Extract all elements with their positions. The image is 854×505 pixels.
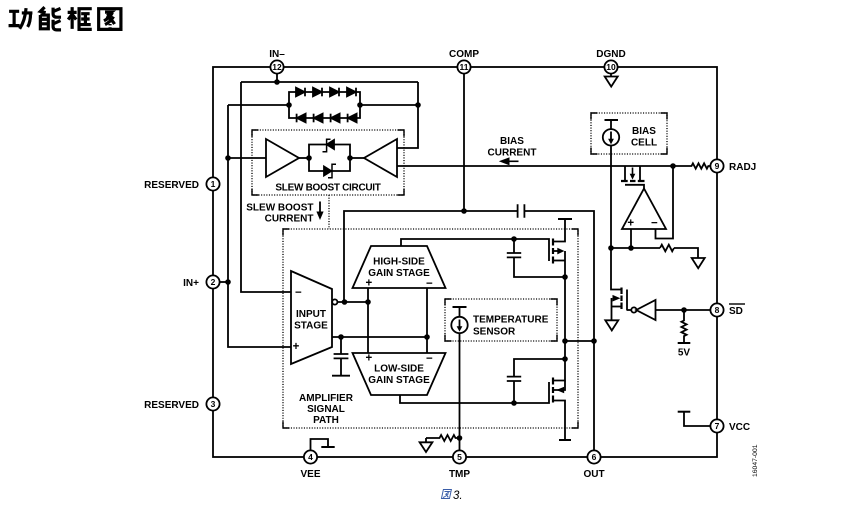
wire: vee bracket at pin4 [311, 439, 329, 451]
wire: box to right amp tip [350, 157, 364, 159]
title 功能框图 [9, 7, 121, 30]
radj op-amp [622, 189, 666, 230]
capacitor below input stage [332, 337, 350, 376]
svg-text:SD: SD [729, 306, 743, 317]
dotted link slew box to signal path box [328, 195, 330, 229]
RADJ series resistor [689, 163, 711, 168]
diode chain top branch wire [289, 92, 360, 105]
ground right of bias resistor [692, 258, 705, 268]
radj pass mosfet [621, 166, 645, 189]
svg-text:12: 12 [272, 62, 282, 72]
ground below shutdown mosfet [605, 320, 618, 330]
svg-text:16047-001: 16047-001 [752, 444, 759, 477]
slew boost mosfet pair box [309, 145, 350, 172]
pin 8 SD [710, 303, 723, 316]
diodes D1-D4 top (pointing right) [296, 88, 356, 97]
wire: diode mid rail right [360, 104, 418, 106]
pin 7 VCC [710, 419, 723, 432]
svg-text:11: 11 [460, 62, 469, 72]
slew boost current label arrow [319, 202, 321, 213]
svg-text:5: 5 [457, 452, 462, 462]
wire: bias current line (right amp out to RADJ node) [397, 165, 689, 167]
svg-text:INPUT: INPUT [296, 309, 326, 320]
wire: IN- vertical to input stage minus [241, 82, 291, 292]
input stage output bubble [332, 299, 337, 304]
svg-text:1: 1 [211, 179, 216, 189]
shutdown mosfet [612, 288, 632, 321]
LS output mosfet [553, 359, 571, 440]
svg-text:CURRENT: CURRENT [265, 214, 314, 225]
input stage trapezoid [291, 271, 332, 364]
IC boundary box [213, 67, 717, 457]
amp input signs [293, 218, 658, 366]
wire: SD pin to inverter [656, 309, 711, 311]
wire: slew amp input [228, 157, 266, 159]
ground at TMP resistor [420, 442, 433, 452]
bias current arrow [508, 160, 519, 162]
slew boost left amp [266, 139, 299, 177]
svg-text:SENSOR: SENSOR [473, 327, 516, 338]
wire: bottom output rail [332, 336, 429, 338]
svg-text:TMP: TMP [449, 469, 470, 480]
pin 1 RESERVED [206, 177, 219, 190]
wire: left amp out to box [299, 157, 309, 159]
HS output mosfet [553, 219, 572, 277]
svg-text:5V: 5V [678, 348, 691, 359]
bias reference resistor [660, 245, 674, 252]
wire: LS gain output to mosfet gate [400, 382, 549, 403]
svg-text:RADJ: RADJ [729, 162, 756, 173]
wire: COMP pin drop [463, 74, 465, 212]
slew device top (diode w/ gate bar) [323, 139, 335, 152]
wire: diode mid rail left [228, 104, 289, 106]
svg-text:VCC: VCC [729, 422, 750, 433]
wire: IN- right drop to slew amp input [397, 82, 418, 148]
pin 12 IN- [270, 60, 283, 82]
wire: out node across [565, 340, 594, 342]
svg-text:AMPLIFIER: AMPLIFIER [299, 393, 354, 404]
pin 2 IN+ [206, 275, 219, 288]
svg-text:−: − [651, 218, 658, 230]
svg-text:7: 7 [715, 421, 720, 431]
wire: op-amp plus lead [630, 229, 632, 248]
high-side gain stage trapezoid [353, 246, 446, 288]
svg-text:+: + [627, 218, 634, 230]
wire: IN+ vertical to input stage plus [228, 105, 291, 347]
svg-text:HIGH-SIDE: HIGH-SIDE [373, 257, 425, 268]
LS gate capacitor [507, 359, 565, 403]
temp sensor current source [453, 306, 467, 308]
svg-text:4: 4 [308, 452, 313, 462]
wire: comp line to OUT drop and pin6 [524, 211, 594, 451]
TMP resistor to ground [426, 435, 460, 442]
svg-text:LOW-SIDE: LOW-SIDE [374, 364, 424, 375]
5V rail bar [678, 342, 691, 344]
svg-text:BIAS: BIAS [500, 136, 524, 147]
wire: HS/LS minus input [426, 288, 428, 353]
svg-text:COMP: COMP [449, 49, 479, 60]
pin 4 VEE [304, 450, 317, 463]
wire: HS plus input [367, 288, 369, 353]
svg-text:3.: 3. [453, 490, 463, 502]
HS gate capacitor [507, 239, 565, 277]
wire: vcc bracket at pin7 [684, 412, 711, 426]
slew boost right amp [364, 139, 397, 177]
slew device bottom [324, 164, 336, 178]
svg-text:IN+: IN+ [183, 278, 199, 289]
pin 10 DGND [604, 60, 617, 73]
diodes D5-D8 bottom (pointing left) [297, 114, 357, 123]
wire: to ground [674, 248, 698, 258]
svg-text:DGND: DGND [596, 49, 625, 60]
svg-text:PATH: PATH [313, 415, 339, 426]
svg-text:+: + [366, 278, 373, 290]
svg-text:−: − [426, 353, 433, 365]
svg-text:VEE: VEE [300, 469, 320, 480]
svg-text:IN–: IN– [269, 49, 285, 60]
wire: bias reference line [611, 247, 660, 249]
svg-text:RESERVED: RESERVED [144, 180, 199, 191]
svg-text:10: 10 [606, 62, 616, 72]
wire: bias cell lead down to shutdown mosfet [611, 145, 622, 289]
vcc rail bar [678, 411, 691, 413]
bias cell dashed box [591, 113, 667, 154]
pin 9 RADJ [710, 159, 723, 172]
svg-text:SIGNAL: SIGNAL [307, 404, 345, 415]
SD overline [729, 303, 745, 305]
svg-text:SLEW BOOST: SLEW BOOST [246, 203, 313, 214]
low-side gain stage trapezoid [353, 353, 446, 395]
svg-text:GAIN STAGE: GAIN STAGE [368, 375, 430, 386]
wire: pin2 stub [220, 281, 229, 283]
ground below DGND pin [610, 74, 612, 77]
pin 11 COMP [457, 60, 470, 73]
sd inverter [631, 307, 636, 312]
wire: IN- top rail [241, 81, 418, 83]
svg-text:−: − [426, 278, 433, 290]
wire: HS gain output to mosfet gate [401, 239, 549, 261]
temperature sensor dashed box [445, 299, 557, 341]
svg-text:2: 2 [211, 277, 216, 287]
pin 5 TMP [453, 450, 466, 463]
slew boost circuit dashed box [252, 130, 404, 195]
figure caption 图3. [441, 490, 462, 503]
wire: op-amp minus feedback [656, 166, 674, 239]
svg-text:CURRENT: CURRENT [488, 148, 537, 159]
comp series capacitor [518, 204, 525, 218]
svg-text:BIAS: BIAS [632, 126, 656, 137]
svg-text:TEMPERATURE: TEMPERATURE [473, 315, 549, 326]
svg-text:CELL: CELL [631, 138, 657, 149]
svg-text:GAIN STAGE: GAIN STAGE [368, 268, 430, 279]
svg-text:−: − [295, 287, 302, 299]
svg-text:OUT: OUT [583, 469, 604, 480]
wire: top output [337, 301, 368, 303]
svg-text:6: 6 [592, 452, 597, 462]
pin 3 RESERVED [206, 397, 219, 410]
svg-text:9: 9 [715, 161, 720, 171]
svg-text:+: + [293, 341, 300, 353]
svg-text:SLEW BOOST CIRCUIT: SLEW BOOST CIRCUIT [275, 183, 380, 194]
bias cell current source [605, 119, 619, 121]
svg-text:RESERVED: RESERVED [144, 400, 199, 411]
diode chain bottom branch wire [289, 105, 360, 118]
wire: temp sensor to TMP pin [459, 333, 461, 451]
5V pullup resistor [681, 310, 686, 343]
wire: HS source to out node [564, 277, 566, 359]
svg-text:3: 3 [211, 399, 216, 409]
svg-text:+: + [366, 353, 373, 365]
vee rail bar [321, 446, 334, 448]
amplifier signal path dashed box [283, 229, 578, 428]
wire: compensation riser and top line [344, 211, 518, 302]
pin 6 OUT [587, 450, 600, 463]
svg-text:8: 8 [715, 305, 720, 315]
svg-text:STAGE: STAGE [294, 321, 328, 332]
